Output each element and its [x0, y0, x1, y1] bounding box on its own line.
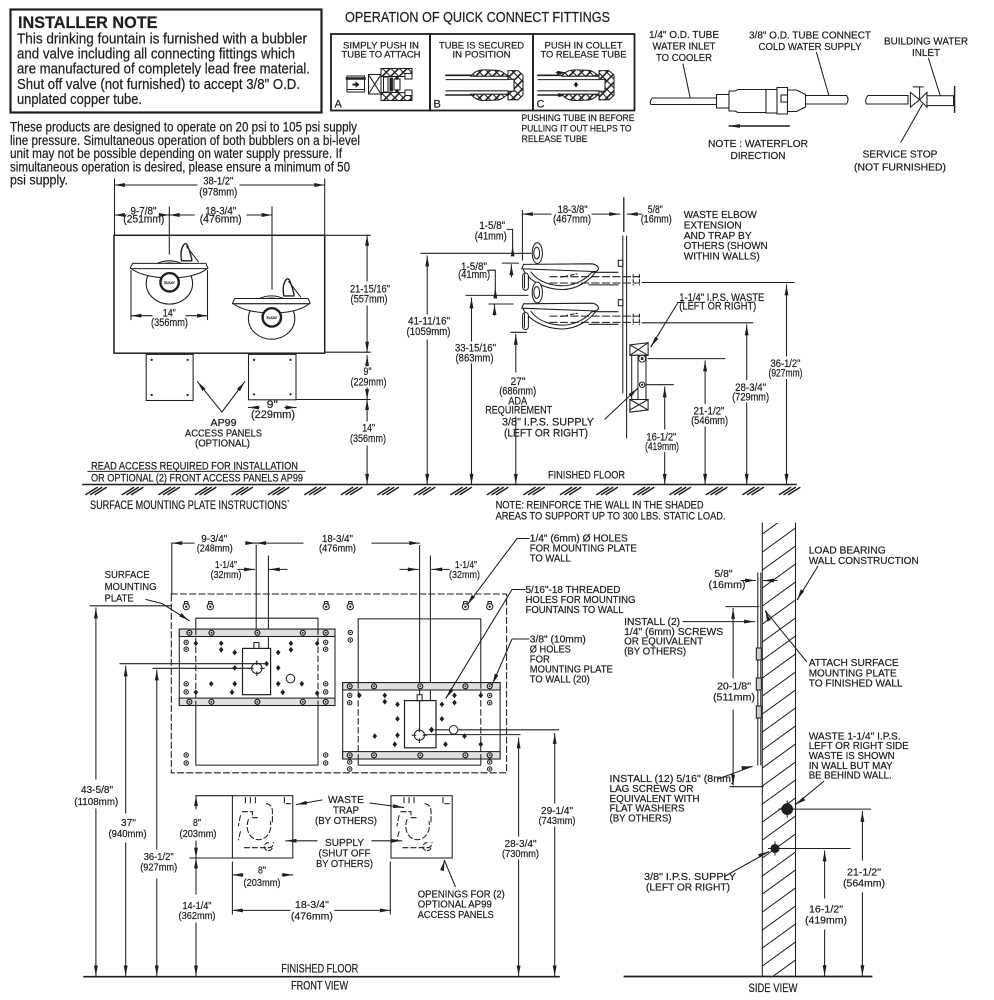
svg-text:(41mm): (41mm): [458, 269, 490, 281]
svg-text:ELKAY: ELKAY: [266, 316, 277, 320]
ext 16-1/2 level: [647, 384, 674, 386]
dim 8 vertical: [195, 796, 197, 809]
right supply circle: [449, 726, 458, 735]
svg-text:ELKAY: ELKAY: [164, 281, 175, 285]
dim 21-15/16 cabinet height: [325, 234, 371, 236]
panel A fitting: [369, 69, 413, 101]
leader to 1/4 tube: [683, 64, 690, 97]
ext 27 ada level: [511, 331, 527, 333]
drain dashes: [561, 313, 577, 316]
dim 21-1/2 (bottom): [861, 812, 863, 861]
ext line left top: [114, 179, 116, 235]
waste trap arrows: [297, 800, 323, 805]
arm bottom: [589, 323, 618, 325]
waste pipe dashed: [550, 276, 639, 278]
keyhole slots: [183, 602, 189, 610]
svg-text:COLD WATER SUPPLY: COLD WATER SUPPLY: [759, 42, 862, 53]
right plate inner dashed: [357, 683, 359, 759]
front floor line: [84, 976, 559, 978]
ext 36-1/2 level: [642, 282, 794, 284]
svg-text:(743mm): (743mm): [539, 815, 576, 827]
right opening trap dashes: [397, 798, 449, 848]
svg-text:(419mm): (419mm): [645, 441, 679, 453]
waste trap upper box: [630, 343, 648, 356]
svg-text:(467mm): (467mm): [553, 213, 591, 225]
dim 43-5/8: [95, 608, 97, 779]
label 1/4 OD tube water inlet: [649, 30, 719, 64]
svg-text:(564mm): (564mm): [843, 878, 885, 890]
dim 9 cabinet to panel bottom: [296, 399, 370, 401]
ext line basin right: [207, 271, 209, 320]
dim 36-1/2 (side): [786, 285, 788, 356]
receptor circle: [263, 308, 281, 326]
right cutout rect: [405, 701, 437, 748]
bubbler hood dome: [260, 296, 284, 299]
fountain basin lid (front): [130, 263, 207, 268]
right waste circle: [412, 728, 427, 743]
dim 5/8 plate thickness (side): [627, 213, 641, 215]
left cutout rect: [243, 648, 271, 694]
svg-text:(NOT FURNISHED): (NOT FURNISHED): [854, 162, 946, 174]
svg-text:TUBE TO ATTACH: TUBE TO ATTACH: [342, 50, 421, 61]
ext 21-1/2 level (bottom): [793, 808, 871, 810]
svg-text:PULLING IT OUT HELPS TO: PULLING IT OUT HELPS TO: [522, 123, 632, 134]
basin shank (side): [523, 313, 529, 330]
ext waste left: [255, 546, 257, 629]
right plate small holes: [348, 693, 352, 697]
dim 18-3/8 wall to front: [522, 213, 551, 215]
svg-text:SURFACE MOUNTING PLATE INSTRUC: SURFACE MOUNTING PLATE INSTRUCTIONS`: [90, 500, 290, 512]
leader load bearing: [798, 567, 818, 600]
svg-text:1/4" O.D. TUBE: 1/4" O.D. TUBE: [649, 30, 719, 41]
svg-text:TO COOLER: TO COOLER: [656, 53, 712, 64]
left plate top strip: [179, 629, 335, 636]
label waste elbow extension: [684, 209, 768, 263]
panel A tube: [347, 76, 365, 92]
left fountain outline: [196, 618, 318, 629]
svg-text:(940mm): (940mm): [109, 828, 147, 840]
svg-text:(927mm): (927mm): [140, 862, 177, 874]
dim 9-3/4: [172, 542, 194, 544]
ext 21-1/2 level: [648, 358, 725, 360]
svg-text:(41mm): (41mm): [475, 230, 507, 242]
ext waste right: [419, 546, 421, 698]
load bearing wall: [762, 510, 795, 984]
installer note box: [11, 10, 322, 113]
access panel right: [249, 354, 297, 399]
svg-text:(32mm): (32mm): [211, 569, 242, 581]
svg-text:SURFACE: SURFACE: [105, 569, 150, 581]
svg-text:(476mm): (476mm): [200, 214, 242, 226]
panel C collet dot: [574, 82, 578, 88]
waste pipe dashed: [550, 315, 639, 317]
dim 18-3/4 bubbler spacing: [169, 214, 194, 216]
left supply circle: [286, 674, 295, 683]
mounting plate outer dashed: [171, 594, 506, 773]
waste trap lower box: [630, 400, 648, 413]
inline fitting body: [717, 88, 806, 115]
svg-text:DIRECTION: DIRECTION: [731, 150, 786, 162]
fountain basin lid (front): [233, 299, 310, 304]
shroud circle: [146, 263, 192, 304]
panel C frame: [533, 34, 635, 111]
bubbler spout: [283, 279, 294, 296]
supply inlet circle: [639, 382, 644, 387]
arrow install 2: [683, 621, 755, 623]
dim 16-1/2 (bottom): [824, 851, 826, 898]
basin inner curve (side): [531, 272, 592, 286]
svg-text:(1059mm): (1059mm): [407, 326, 451, 338]
svg-text:AREAS TO SUPPORT UP TO 300 LBS: AREAS TO SUPPORT UP TO 300 LBS. STATIC L…: [496, 510, 726, 522]
svg-text:(OPTIONAL): (OPTIONAL): [195, 438, 250, 450]
svg-text:A: A: [335, 99, 343, 111]
dim 28-3/4 (front): [518, 738, 520, 836]
svg-text:READ ACCESS REQUIRED FOR INSTA: READ ACCESS REQUIRED FOR INSTALLATION: [91, 461, 298, 473]
dim 33-15/16: [471, 298, 473, 341]
panel C release arrows: [556, 72, 568, 74]
svg-text:(203mm): (203mm): [180, 828, 217, 840]
svg-text:FRONT VIEW: FRONT VIEW: [291, 981, 348, 993]
access panel left: [146, 354, 193, 400]
panel A frame: [331, 34, 430, 111]
leader openings: [445, 861, 456, 887]
right strip holes: [347, 684, 352, 689]
panel B tube: [446, 75, 508, 95]
dim 14 left basin width: [131, 315, 152, 317]
dim 29-1/4: [554, 734, 556, 804]
dim 14-1/4: [195, 858, 197, 894]
leader 3/8 supply (middle): [605, 389, 638, 420]
svg-text:and valve including all connec: and valve including all connecting fitti…: [17, 47, 295, 63]
drain dashes: [561, 274, 577, 277]
svg-text:(LEFT OR RIGHT): (LEFT OR RIGHT): [504, 427, 588, 439]
waterflow arrow: [730, 125, 790, 127]
ext 28-3/4 level: [642, 322, 753, 324]
svg-text:(32mm): (32mm): [449, 569, 480, 581]
tube after valve: [927, 96, 954, 106]
basin lid (side): [522, 264, 599, 272]
svg-text:TO FINISHED WALL: TO FINISHED WALL: [809, 678, 903, 690]
ap99 arrows: [198, 382, 222, 412]
basin shank (side): [523, 273, 529, 290]
bubbler (side): [532, 282, 542, 303]
basin bowl (side): [523, 309, 596, 330]
holes below left plate: [184, 753, 188, 757]
svg-text:unplated copper tube.: unplated copper tube.: [17, 92, 142, 108]
svg-text:psi supply.: psi supply.: [10, 173, 68, 188]
svg-text:(476mm): (476mm): [319, 543, 356, 555]
ext 36-1/2 level (plate): [153, 667, 252, 669]
right opening square: [391, 796, 452, 858]
left plate small holes: [184, 640, 188, 644]
leader 5/16 holes: [446, 590, 525, 699]
svg-text:(229mm): (229mm): [251, 409, 295, 421]
arm top: [592, 311, 618, 313]
svg-text:FINISHED FLOOR: FINISHED FLOOR: [548, 470, 625, 482]
ext 20-1/8 top: [726, 606, 759, 608]
svg-text:18-3/4": 18-3/4": [295, 899, 329, 911]
svg-text:OPERATION OF QUICK CONNECT FIT: OPERATION OF QUICK CONNECT FITTINGS: [345, 9, 610, 26]
svg-text:(229mm): (229mm): [351, 376, 387, 388]
ext plate left edge: [171, 543, 173, 594]
wall face line (side): [623, 198, 625, 231]
ext 18-3/4 right: [389, 862, 391, 914]
installer note body: [17, 32, 310, 108]
left cutout nub: [254, 643, 259, 649]
right plate body: [343, 683, 500, 759]
receptor circle: [160, 273, 178, 291]
pushing tube note: [522, 113, 635, 145]
side floor line: [625, 976, 872, 978]
leader 1-1/4 waste: [651, 303, 684, 347]
3/8 tube to supply: [806, 96, 849, 105]
left plate body: [179, 629, 335, 705]
arm top: [592, 271, 618, 273]
basin lid (side): [522, 303, 599, 311]
svg-text:(203mm): (203mm): [244, 877, 281, 889]
shroud circle: [248, 298, 294, 339]
svg-text:38-1/2": 38-1/2": [203, 175, 233, 187]
svg-text:(546mm): (546mm): [691, 415, 728, 427]
svg-text:This drinking fountain is furn: This drinking fountain is furnished with…: [17, 32, 307, 48]
svg-text:(419mm): (419mm): [805, 915, 847, 927]
arm bottom: [589, 284, 618, 286]
svg-text:MOUNTING: MOUNTING: [105, 581, 157, 593]
svg-text:SERVICE STOP: SERVICE STOP: [863, 149, 938, 161]
arrow install 12: [718, 767, 752, 780]
svg-text:(16mm): (16mm): [641, 213, 672, 225]
panel C tube: [538, 75, 599, 95]
dim 41-11/16: [426, 256, 428, 314]
ext 41-11/16 level: [421, 252, 531, 254]
svg-text:8": 8": [258, 865, 266, 877]
svg-text:SIDE VIEW: SIDE VIEW: [749, 983, 798, 995]
ext line basin left: [130, 271, 132, 320]
floor hatch marks: [86, 488, 800, 495]
svg-text:(362mm): (362mm): [179, 910, 216, 922]
right fountain outline: [358, 619, 481, 683]
leader to building inlet: [929, 59, 942, 99]
dim 9 panel width: [249, 407, 260, 409]
svg-text:FINISHED FLOOR: FINISHED FLOOR: [281, 964, 358, 976]
svg-text:PLATE: PLATE: [105, 593, 134, 605]
svg-text:(729mm): (729mm): [732, 391, 769, 403]
building supply tube: [866, 96, 908, 105]
ext 16-1/2 level (bottom): [780, 848, 850, 850]
svg-text:(LEFT OR RIGHT): (LEFT OR RIGHT): [679, 300, 756, 312]
svg-text:(476mm): (476mm): [291, 911, 333, 923]
right plate top strip: [343, 683, 500, 690]
svg-text:TO RELEASE TUBE: TO RELEASE TUBE: [541, 50, 627, 61]
left opening trap dashes: [238, 798, 290, 848]
svg-text:WATER INLET: WATER INLET: [653, 42, 716, 53]
left waste circle: [249, 661, 264, 676]
cooler supply tube 1/4: [650, 98, 716, 105]
dim 36-1/2 (plate): [156, 670, 158, 849]
svg-text:43-5/8": 43-5/8": [81, 784, 113, 796]
svg-text:(BY OTHERS): (BY OTHERS): [624, 645, 686, 657]
svg-text:NOTE : WATERFLOR: NOTE : WATERFLOR: [708, 138, 808, 150]
right plate diamonds: [357, 693, 362, 699]
ext line right bubbler: [271, 207, 273, 289]
svg-text:3/8" O.D. TUBE CONNECT: 3/8" O.D. TUBE CONNECT: [749, 31, 871, 42]
svg-text:are manufactured of completely: are manufactured of completely lead free…: [17, 62, 310, 78]
dim 27 ada: [515, 335, 517, 373]
svg-text:INSTALLER NOTE: INSTALLER NOTE: [18, 14, 158, 32]
svg-text:(511mm): (511mm): [713, 692, 755, 704]
ext 37 level: [120, 663, 266, 665]
panel B frame: [430, 34, 533, 111]
dim 28-3/4 (side): [746, 325, 748, 380]
svg-text:WALL CONSTRUCTION: WALL CONSTRUCTION: [809, 555, 919, 567]
svg-text:(16mm): (16mm): [709, 579, 746, 591]
cooler cabinet front: [114, 235, 325, 353]
bubbler spout: [181, 244, 192, 261]
panel A tube arrow: [353, 81, 360, 87]
ext 29-1/4 level: [435, 729, 559, 731]
svg-text:B: B: [434, 99, 441, 111]
dim 18-3/4 openings: [232, 909, 290, 911]
svg-text:BE BEHIND WALL.: BE BEHIND WALL.: [809, 770, 892, 782]
svg-text:INLET: INLET: [912, 48, 940, 59]
wall plate (side): [622, 236, 624, 393]
service stop valve: [910, 87, 927, 107]
svg-text:Shut off valve (not furnished): Shut off valve (not furnished) to accept…: [17, 77, 300, 93]
svg-text:(730mm): (730mm): [502, 848, 539, 860]
left plate inner dashed: [195, 629, 197, 705]
leader surface mounting plate: [146, 600, 189, 621]
svg-text:IN POSITION: IN POSITION: [453, 50, 511, 61]
ext supply offset left: [267, 556, 269, 664]
svg-text:C: C: [537, 99, 545, 111]
waste pipe dot: [779, 801, 795, 817]
left cutout stem: [256, 648, 258, 663]
svg-text:(248mm): (248mm): [197, 543, 233, 555]
dim 38-1/2 overall width: [115, 184, 198, 186]
bubbler (side): [532, 243, 542, 264]
svg-text:PUSHING TUBE IN BEFORE: PUSHING TUBE IN BEFORE: [522, 113, 635, 124]
leader 1/4 holes: [468, 539, 530, 605]
basin bowl (side): [523, 269, 596, 290]
svg-text:(978mm): (978mm): [199, 187, 237, 199]
svg-text:(356mm): (356mm): [350, 433, 386, 445]
svg-text:TO WALL: TO WALL: [530, 554, 571, 565]
svg-text:(BY OTHERS): (BY OTHERS): [610, 812, 672, 824]
waste outlet circle: [639, 355, 646, 362]
svg-text:BUILDING WATER: BUILDING WATER: [884, 37, 968, 48]
ext line right top: [324, 179, 326, 235]
svg-text:(251mm): (251mm): [123, 214, 164, 226]
svg-text:(863mm): (863mm): [456, 352, 494, 364]
supply pipe dot: [769, 842, 782, 855]
ext line left bubbler: [168, 207, 170, 254]
leader 3/8 holes: [493, 639, 530, 684]
basin inner curve (side): [531, 312, 592, 326]
leader 3/8 supply (bottom): [725, 852, 769, 877]
finished floor line: [83, 484, 796, 486]
svg-text:(927mm): (927mm): [769, 368, 803, 380]
leader attach surface: [766, 611, 807, 662]
building inlet end bar: [954, 87, 956, 113]
dim 8 horizontal: [232, 874, 243, 876]
dim 9-7/8 left bubbler offset: [115, 214, 124, 216]
ext 18-3/4 left: [231, 862, 233, 914]
svg-text:OR OPTIONAL (2) FRONT ACCESS P: OR OPTIONAL (2) FRONT ACCESS PANELS AP99: [91, 472, 303, 484]
waste trap tube: [632, 355, 646, 399]
fountain bowl (front): [131, 269, 207, 278]
panel B fitting: [471, 70, 523, 101]
plate tab upper: [618, 260, 623, 266]
panel C fitting: [562, 70, 614, 101]
svg-text:(557mm): (557mm): [351, 294, 388, 306]
svg-text:FOUNTAINS TO WALL: FOUNTAINS TO WALL: [526, 605, 624, 616]
svg-text:ACCESS PANELS: ACCESS PANELS: [418, 909, 494, 921]
svg-text:BY OTHERS): BY OTHERS): [316, 858, 373, 870]
svg-text:(356mm): (356mm): [151, 317, 188, 329]
left plate diamonds: [194, 641, 199, 647]
plate tab lower: [618, 300, 623, 306]
leader to 3/8 tube: [817, 53, 830, 97]
right cutout nub: [417, 695, 422, 701]
mounting plate (bottom side view): [756, 573, 761, 765]
svg-text:(1108mm): (1108mm): [74, 796, 118, 808]
ext 28-3/4 level (front): [425, 734, 521, 736]
svg-text:TO WALL (20): TO WALL (20): [530, 675, 590, 686]
left strip holes: [187, 630, 192, 635]
svg-text:REQUIREMENT: REQUIREMENT: [485, 404, 552, 416]
svg-text:(LEFT OR RIGHT): (LEFT OR RIGHT): [646, 881, 730, 893]
spout guard: [187, 247, 199, 262]
svg-text:RELEASE TUBE: RELEASE TUBE: [522, 134, 588, 145]
ext 20-1/8 bottom: [730, 786, 763, 788]
bubbler hood dome: [157, 261, 181, 264]
fountain bowl (front): [233, 304, 309, 313]
left plate bottom strip: [179, 698, 335, 705]
right plate bottom strip: [343, 752, 500, 759]
dim 21-1/2 (side): [704, 361, 706, 404]
dim 37: [125, 666, 127, 813]
ext 43-5/8 level: [90, 605, 171, 607]
svg-text:(BY OTHERS): (BY OTHERS): [315, 815, 377, 827]
ext opening bottom: [190, 857, 293, 859]
ext opening top: [196, 795, 232, 797]
right cutout stem: [419, 701, 421, 730]
ext supply offset right: [429, 556, 431, 729]
spout guard: [289, 282, 301, 297]
svg-text:WITHIN WALLS): WITHIN WALLS): [684, 251, 760, 263]
leader waste in wall: [796, 782, 824, 805]
leader service stop: [901, 105, 922, 143]
ext line bubbler front: [521, 211, 523, 261]
dim 20-1/8: [732, 609, 734, 615]
left opening square: [232, 796, 292, 858]
dim 18-3/4 waste spacing: [256, 542, 303, 544]
dim 14 panel bottom to floor: [366, 400, 368, 422]
supply pressure paragraph: [10, 120, 360, 188]
ext 33-15/16 level: [466, 294, 528, 296]
dim 16-1/2 (side): [664, 387, 666, 429]
supply arrows: [286, 840, 317, 842]
